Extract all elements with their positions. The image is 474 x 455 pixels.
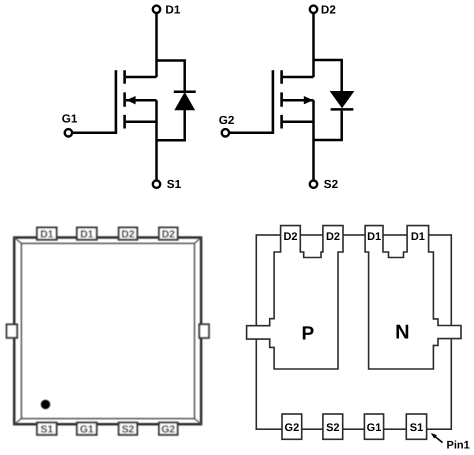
pin pad S2 (top view pin 3): [119, 423, 138, 435]
pin pad S1 (top view pin 1): [37, 423, 57, 435]
svg-text:D2: D2: [162, 229, 175, 240]
pin 1 arrow: [435, 437, 443, 443]
svg-text:G1: G1: [367, 422, 382, 434]
svg-text:D1: D1: [80, 229, 93, 240]
transistor Q1 N-channel MOSFET (gate bar and channel bars): [116, 70, 125, 133]
package corner chamfer top-left: [14, 238, 21, 244]
package corner chamfer top-right: [195, 238, 202, 244]
pin 1 indicator dot: [41, 400, 50, 409]
diode DB2 cathode bar: [331, 108, 354, 111]
wire Q2 source lead: [312, 100, 315, 180]
svg-text:N: N: [395, 321, 409, 343]
wire body-diode branch top (node D2 to diode): [314, 60, 342, 92]
terminal G2: [222, 129, 229, 136]
pin pad G2 (top view pin 4): [159, 423, 178, 435]
pin pad G2 bottom view: [282, 414, 302, 439]
pad P (P-channel die pad with D2 pins and side tab): [247, 226, 343, 369]
side tab left: [7, 324, 18, 337]
svg-text:D1: D1: [367, 231, 381, 243]
terminal G1: [65, 129, 72, 136]
pin pad D2 (top view pin 6): [119, 228, 138, 240]
Q1 body arrow (points left, N-channel): [126, 96, 135, 104]
svg-text:G2: G2: [285, 422, 300, 434]
wire G1 gate lead: [73, 132, 118, 135]
pin pad D1 (top view pin 7): [77, 228, 97, 240]
terminal S1: [153, 181, 160, 188]
wire Q1 body stub: [126, 99, 157, 102]
svg-text:D1: D1: [165, 3, 180, 16]
wire Q1 source lead: [155, 100, 158, 180]
svg-text:D1: D1: [40, 229, 53, 240]
side tab right: [199, 324, 209, 338]
pin pad G1 bottom view: [364, 414, 383, 439]
package bottom view body outline: [256, 235, 451, 429]
svg-text:G1: G1: [80, 424, 94, 435]
svg-text:D1: D1: [411, 231, 425, 243]
wire G2 gate lead: [230, 132, 275, 135]
package corner chamfer bottom-right: [195, 419, 202, 425]
svg-text:S2: S2: [324, 178, 339, 191]
wire Q2 drain stub: [283, 76, 314, 79]
svg-text:D2: D2: [121, 229, 134, 240]
wire D1 drain lead: [155, 13, 158, 77]
diode DB1 body diode triangle: [175, 93, 194, 110]
pin pad D1 (top view pin 8): [37, 228, 57, 240]
svg-text:D2: D2: [326, 231, 340, 243]
package top view outer body outline: [14, 238, 201, 425]
pin pad S1 bottom view: [406, 414, 426, 439]
diode DB2 body diode triangle: [331, 92, 354, 108]
svg-text:S1: S1: [410, 422, 423, 434]
transistor Q2 P-channel MOSFET (gate bar and channel bars): [273, 70, 282, 133]
svg-text:S1: S1: [40, 424, 53, 435]
pin pad D2 (top view pin 5): [159, 228, 178, 240]
terminal D1: [153, 6, 160, 13]
svg-text:D2: D2: [321, 3, 336, 16]
wire D2 drain lead: [312, 13, 315, 77]
wire body-diode branch bottom (diode to source): [157, 110, 185, 141]
wire Q2 source stub: [283, 121, 314, 124]
wire body-diode branch top (node D1 to diode): [157, 61, 185, 91]
svg-text:D2: D2: [283, 231, 297, 243]
svg-text:P: P: [302, 323, 315, 344]
svg-text:G2: G2: [161, 424, 175, 435]
package top view inner outline: [21, 243, 194, 418]
terminal S2: [310, 181, 317, 188]
package corner chamfer bottom-left: [14, 419, 21, 425]
pin pad S2 bottom view: [323, 414, 343, 439]
diode DB1 cathode bar: [174, 91, 196, 94]
wire Q1 drain stub: [126, 76, 157, 79]
Q2 body arrow (points right, P-channel): [304, 96, 313, 104]
pad N (N-channel die pad with D1 pins and side tab): [365, 226, 461, 369]
svg-text:S2: S2: [326, 422, 339, 434]
svg-text:G2: G2: [219, 114, 235, 127]
wire body-diode branch bottom (diode to source): [314, 111, 342, 140]
svg-text:S1: S1: [167, 178, 182, 191]
svg-text:S2: S2: [122, 424, 135, 435]
pin pad G1 (top view pin 2): [77, 423, 97, 435]
svg-text:Pin1: Pin1: [447, 440, 470, 452]
svg-text:G1: G1: [62, 113, 78, 126]
wire Q1 source stub: [126, 121, 157, 124]
wire Q2 body stub: [283, 99, 314, 102]
terminal D2: [310, 6, 317, 13]
